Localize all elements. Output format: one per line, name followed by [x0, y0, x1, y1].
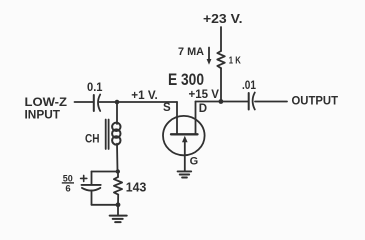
- wire: bypass capacitor to bottom rail: [91, 191, 93, 205]
- transistor Q1 drain lead inside: [195, 102, 197, 134]
- svg-text:1 K: 1 K: [229, 55, 241, 67]
- wire: capacitor to source corner: [99, 101, 177, 103]
- wire: drain bus to output capacitor: [196, 101, 249, 103]
- wire: RC network top rail: [92, 171, 118, 173]
- wire: 1K resistor to drain junction: [220, 68, 222, 101]
- capacitor C3 .01 (output coupling): [249, 93, 255, 110]
- svg-text:S: S: [163, 102, 171, 114]
- svg-text:D: D: [199, 103, 207, 115]
- inductor CH core bars: [106, 120, 109, 150]
- wire: bottom junction to ground: [117, 205, 119, 215]
- transistor Q1 E300 JFET envelope: [163, 116, 205, 155]
- label 50/6 fraction: [62, 174, 74, 195]
- ground (gate): [178, 171, 192, 177]
- wire: input lead: [75, 101, 94, 103]
- svg-text:INPUT: INPUT: [25, 107, 61, 121]
- node: drain supply junction: [219, 99, 224, 104]
- svg-text:+23 V.: +23 V.: [203, 12, 243, 26]
- svg-text:CH: CH: [85, 133, 100, 145]
- resistor R2 1K (drain load): [217, 51, 225, 68]
- current arrow 7 MA: [207, 48, 212, 65]
- svg-text:0.1: 0.1: [87, 80, 103, 94]
- wire: RC network bottom rail: [92, 204, 119, 206]
- ground (bottom, source network): [110, 216, 127, 223]
- wire: output lead: [255, 101, 287, 103]
- svg-text:6: 6: [65, 184, 70, 195]
- svg-text:E 300: E 300: [168, 71, 204, 89]
- transistor Q1 channel bar: [171, 133, 198, 135]
- wire: top rail down to bypass capacitor: [91, 172, 93, 185]
- inductor CH choke coil: [112, 123, 120, 145]
- svg-text:143: 143: [126, 181, 147, 195]
- transistor Q1 gate lead with arrow: [182, 136, 188, 171]
- wire: choke bottom to RC top junction: [116, 144, 119, 172]
- node: RC bottom junction: [116, 202, 121, 207]
- wire: source lead down into JFET: [176, 102, 178, 134]
- node: RC top junction: [116, 169, 120, 173]
- capacitor C2 50/6 electrolytic: [82, 185, 101, 191]
- svg-text:OUTPUT: OUTPUT: [292, 93, 339, 107]
- resistor R1 143 (source bias): [114, 172, 122, 205]
- wire: supply drop from +23V: [220, 27, 222, 51]
- capacitor C1 0.1 (input coupling): [94, 95, 100, 112]
- svg-text:.01: .01: [242, 80, 257, 92]
- wire: junction down to choke: [116, 102, 118, 124]
- node: input junction: [115, 100, 120, 105]
- svg-text:G: G: [190, 155, 199, 167]
- label LOW-Z INPUT: [25, 95, 68, 122]
- svg-text:+15 V: +15 V: [189, 89, 220, 101]
- svg-text:+1 V.: +1 V.: [131, 88, 158, 102]
- svg-text:7 MA: 7 MA: [178, 46, 204, 58]
- polarity plus sign of C2: [81, 175, 87, 181]
